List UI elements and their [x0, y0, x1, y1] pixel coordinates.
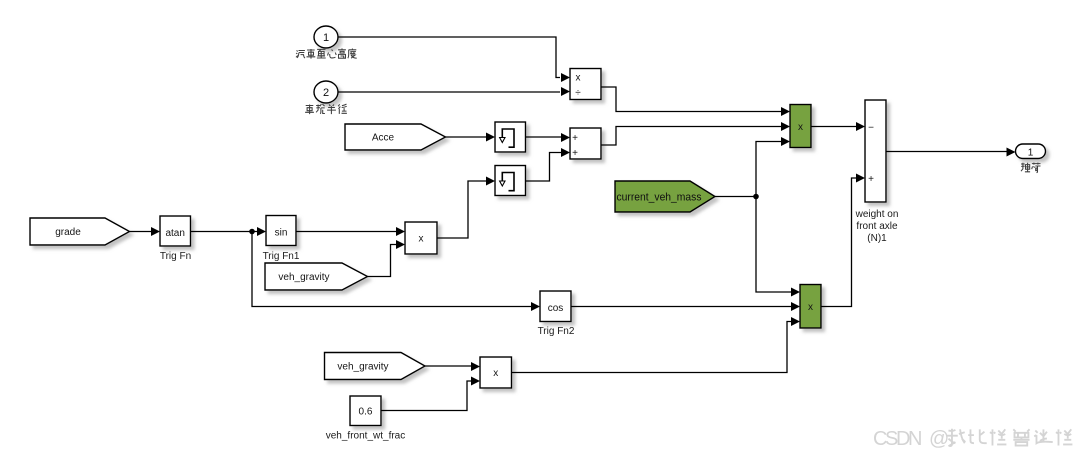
outport 1 [1016, 144, 1046, 159]
svg-text:veh_gravity: veh_gravity [337, 362, 388, 373]
svg-text:2: 2 [323, 87, 329, 99]
svg-text:cos: cos [548, 303, 564, 314]
svg-text:Trig Fn1: Trig Fn1 [263, 251, 300, 262]
svg-text:x: x [493, 368, 498, 379]
svg-text:+: + [572, 133, 578, 144]
wire x1 to wrap2 [437, 181, 486, 238]
junction node mass [753, 194, 759, 200]
svg-text:(N)1: (N)1 [867, 233, 887, 244]
svg-text:weight on: weight on [855, 209, 899, 220]
green product block 1 [790, 105, 811, 148]
green product block 2 [800, 285, 821, 329]
wire veh_gravity2 to product x2 [425, 365, 471, 367]
trig block atan [160, 216, 191, 246]
cos block [540, 291, 571, 322]
svg-text:0.6: 0.6 [359, 407, 373, 418]
svg-text:x: x [808, 302, 813, 313]
svg-text:÷: ÷ [575, 88, 581, 99]
label 轴荷 (outport name) [1021, 163, 1041, 173]
svg-text:x: x [419, 234, 424, 245]
svg-text:grade: grade [55, 227, 81, 238]
wire cos to green product2 input2 [571, 306, 791, 308]
wire green1 to subtract input1 [811, 126, 856, 128]
subtract block [865, 100, 886, 202]
wire veh_gravity to product x1 [368, 245, 397, 277]
svg-text:1: 1 [323, 32, 329, 44]
from tag current_veh_mass (green) [615, 181, 715, 212]
wire inport1 to divide [338, 37, 560, 78]
svg-text:front axle: front axle [856, 221, 898, 232]
trig block sin [266, 216, 296, 246]
junction node after atan [249, 229, 255, 235]
from tag veh_gravity [265, 263, 368, 290]
svg-text:−: − [868, 123, 874, 134]
inport 2 [314, 81, 338, 103]
wrap-to-zero block 1 [495, 122, 526, 152]
label 汽车重心高度 (inport 1 name) [296, 48, 357, 58]
svg-text:CSDN: CSDN [873, 428, 923, 450]
svg-text:1: 1 [1028, 148, 1034, 159]
divide block [570, 69, 601, 100]
wire inport2 to divide [338, 91, 560, 93]
sum block [570, 128, 601, 159]
from tag grade [30, 218, 130, 245]
svg-text:sin: sin [275, 228, 288, 239]
from tag Acce [345, 124, 446, 150]
wire mass junction up to green product1 input3 [756, 142, 781, 197]
svg-text:Trig Fn2: Trig Fn2 [538, 326, 575, 337]
wire subtract to outport [886, 151, 1007, 153]
constant 0.6 [350, 396, 381, 426]
from tag veh_gravity 2 [325, 353, 426, 380]
wire green2 to subtract input2 [821, 178, 856, 307]
svg-text:x: x [798, 122, 803, 133]
svg-text:current_veh_mass: current_veh_mass [617, 192, 702, 204]
wire 0.6 to product x2 input2 [381, 381, 471, 411]
wire x2 to green product2 input3 [512, 322, 792, 373]
product block x1 [405, 222, 437, 254]
wire sin to product x1 [296, 231, 396, 233]
svg-text:+: + [572, 148, 578, 159]
svg-text:+: + [868, 174, 874, 185]
wire branch down to cos [252, 232, 531, 307]
wrap-to-zero block 2 [495, 166, 526, 196]
wire atan to sin [191, 231, 258, 233]
wire wrap2 to sum input2 [526, 153, 562, 182]
wire sum to green product1 input2 [601, 127, 781, 146]
svg-text:veh_gravity: veh_gravity [278, 272, 329, 283]
svg-text:x: x [576, 73, 581, 84]
wire Acce to wrap1 [446, 136, 487, 138]
wire mass to junction [715, 196, 756, 198]
svg-text:Acce: Acce [372, 133, 395, 144]
svg-text:atan: atan [165, 228, 184, 239]
wire wrap1 to sum [526, 136, 562, 138]
svg-text:Trig Fn: Trig Fn [160, 251, 191, 262]
wire mass junction down to green product2 input1 [756, 197, 791, 293]
label 车轮半径 (inport 2 name) [305, 104, 347, 114]
wire grade to atan [130, 231, 152, 233]
svg-text:veh_front_wt_frac: veh_front_wt_frac [326, 431, 406, 442]
svg-text:@: @ [929, 428, 949, 450]
wire divide to green product1 input1 [601, 87, 781, 112]
product block x2 [480, 357, 512, 388]
inport 1 [314, 26, 338, 48]
